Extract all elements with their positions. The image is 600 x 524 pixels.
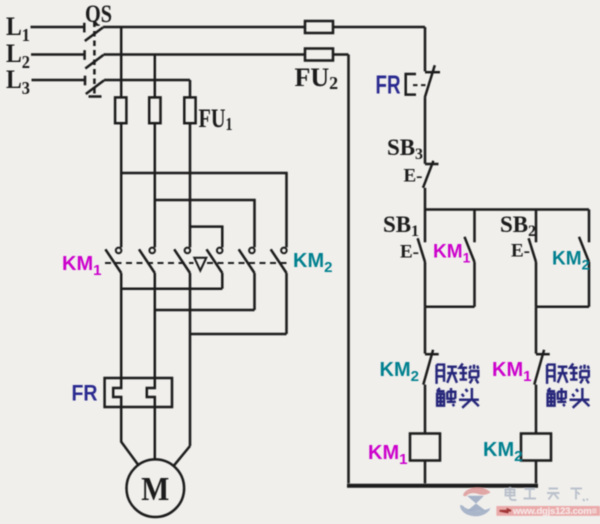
wire left rail xyxy=(347,55,350,484)
button SB1 NO blade xyxy=(418,238,425,262)
wire FU2b to left rail xyxy=(333,53,349,56)
svg-text:KM1: KM1 xyxy=(368,442,407,468)
wire KM2 aux down xyxy=(588,262,591,307)
FR box xyxy=(105,378,172,407)
watermark logo knot xyxy=(467,496,486,511)
FR NC contact tick xyxy=(425,71,440,74)
contact KM2 aux NO blade xyxy=(579,237,589,262)
svg-text:E-: E- xyxy=(511,241,530,262)
wire L3 feeder down xyxy=(189,80,192,97)
wire SB1 down xyxy=(424,262,427,307)
wire KM1 aux down xyxy=(473,262,476,307)
wire FR to SB3 xyxy=(424,98,427,164)
wire coil2 down xyxy=(535,461,538,484)
contactor KM2 pole1 terminal xyxy=(217,248,223,254)
coil KM1 xyxy=(410,434,440,461)
wire crossover top C (L3 to contact4) xyxy=(190,227,222,248)
contactor KM2 pole1 blade xyxy=(207,249,223,273)
svg-text:SB1: SB1 xyxy=(383,212,419,240)
wire crossover bottom A xyxy=(121,287,222,290)
motor circle xyxy=(127,459,185,517)
thermal relay FR element xyxy=(105,378,172,407)
FR actuator dashed link xyxy=(413,84,428,86)
watermark red banner xyxy=(496,506,600,516)
wire branch top rail xyxy=(425,208,589,211)
wire KM2 aux join xyxy=(536,306,589,309)
wire SB2 down xyxy=(535,262,538,307)
fuse FU1 pole2 xyxy=(149,97,160,123)
wire L2 out to FU2b xyxy=(104,53,306,56)
watermark logo red crescent xyxy=(463,487,491,496)
svg-text:SB2: SB2 xyxy=(500,212,536,240)
wire SB1 drop xyxy=(424,210,427,243)
watermark xyxy=(460,487,600,517)
coil KM2 xyxy=(521,434,551,461)
interlock KM1 NC blade xyxy=(534,350,544,385)
contactor KM1 pole2 blade xyxy=(139,249,155,273)
wire L2 in xyxy=(31,53,84,56)
CONTROL-SECTION xyxy=(305,21,589,486)
wire contact3 down xyxy=(189,273,192,446)
svg-text:M: M xyxy=(141,471,169,508)
watermark banner arrow xyxy=(500,509,512,512)
wire L2 feeder down xyxy=(154,55,157,98)
wire crossover top B (L2 to contact5) xyxy=(155,200,255,247)
wire L3 out xyxy=(104,79,190,82)
contactor KM2 pole2 terminal xyxy=(249,248,255,254)
wire bottom rail xyxy=(347,484,538,488)
fuse FU1 pole3 xyxy=(184,97,195,123)
svg-text:FR: FR xyxy=(72,381,98,406)
wire KM1 aux drop xyxy=(473,210,476,243)
wire KM2 aux drop xyxy=(588,210,591,243)
wire contact6 down xyxy=(285,273,288,334)
FR heater 2 xyxy=(147,378,155,407)
fuse FU2 b xyxy=(305,49,333,61)
FR heater 1 xyxy=(113,378,121,407)
contactor KM1 pole3 blade xyxy=(174,249,190,273)
node L1 xyxy=(31,27,426,97)
wire crossover bottom B xyxy=(155,309,255,312)
node L3 xyxy=(32,80,191,97)
label interlock text 1 (lian suo chu tou) xyxy=(437,364,590,408)
QS fixed terminal 1 xyxy=(83,23,86,33)
wire L1 out to FU2a xyxy=(103,26,305,29)
wire fuse3 down xyxy=(189,123,192,247)
wire fuse2 down xyxy=(154,123,157,247)
contactor KM2 pole2 blade xyxy=(239,249,255,273)
fuse FU1 xyxy=(115,97,286,247)
svg-text:QS: QS xyxy=(85,1,112,28)
QS fixed terminal 3 xyxy=(84,76,87,86)
wire FR to motor left xyxy=(121,407,138,465)
svg-text:KM1: KM1 xyxy=(433,242,471,266)
FR actuator bracket xyxy=(406,74,416,95)
svg-text:www.dgjs123.com≡: www.dgjs123.com≡ xyxy=(512,506,597,517)
wire to motor right xyxy=(174,446,190,466)
wire L1 feeder down xyxy=(120,27,123,97)
wire contact5 down xyxy=(253,273,256,310)
wire coil1 down xyxy=(424,461,427,484)
wire branch2 to interlock xyxy=(535,307,538,354)
svg-text:FR: FR xyxy=(376,70,401,100)
wire contact2 down xyxy=(154,273,157,378)
wire SB3 to branch node xyxy=(424,188,427,210)
wire KM1 aux join xyxy=(425,306,475,309)
QS blade 3 xyxy=(86,80,104,94)
QS blade 1 xyxy=(85,27,103,41)
watermark logo blue crescent xyxy=(460,505,491,516)
mechanical linkage dashed left xyxy=(105,262,194,264)
contactor KM1 pole3 terminal xyxy=(185,248,191,254)
wire contact1 down xyxy=(120,273,123,378)
wire SB2 drop xyxy=(535,210,538,243)
svg-text:FU2: FU2 xyxy=(295,63,339,93)
wire interlock2 to coil xyxy=(535,385,538,434)
fuse FU2 a xyxy=(305,21,333,33)
interlock triangle xyxy=(194,258,206,271)
mechanical linkage dashed right xyxy=(207,262,288,264)
watermark text dian gong tian xia xyxy=(506,487,588,501)
fuse FU1 pole1 xyxy=(115,97,126,123)
contact KM1 aux NO blade xyxy=(465,237,475,262)
button SB3 NC tick xyxy=(425,163,439,166)
QS linkage dashed xyxy=(93,22,96,97)
svg-text:FU1: FU1 xyxy=(199,104,233,134)
svg-text:KM2: KM2 xyxy=(293,250,332,276)
QS fixed terminal 2 xyxy=(83,50,86,60)
wire L3 in xyxy=(32,79,85,82)
svg-text:KM2: KM2 xyxy=(380,359,419,385)
wire crossover top A (L1 to contact6) xyxy=(121,173,286,247)
contactor KM2 pole3 terminal xyxy=(281,248,287,254)
wire control main down xyxy=(424,27,427,71)
interlock KM1 NC tick xyxy=(536,353,550,356)
QS linkage end tick xyxy=(89,95,102,98)
wire L1 in xyxy=(31,26,84,29)
interlock KM2 NC tick xyxy=(425,353,439,356)
motor M xyxy=(121,407,190,517)
contactor KM2 pole3 blade xyxy=(271,249,287,273)
wire FU2a to FR contact xyxy=(333,26,425,29)
button SB3 NC blade xyxy=(423,161,433,188)
contactor KM1 pole1 terminal xyxy=(116,248,122,254)
QS blade 2 xyxy=(85,55,103,69)
button SB2 NO blade xyxy=(529,238,536,262)
svg-text:KM2: KM2 xyxy=(483,439,522,465)
contactor main contacts xyxy=(105,248,288,446)
wire fuse1 down xyxy=(120,123,123,247)
FR NC contact blade xyxy=(425,65,435,97)
contactor KM1 pole2 terminal xyxy=(149,248,155,254)
svg-text:KM1: KM1 xyxy=(62,253,101,279)
svg-text:SB3: SB3 xyxy=(387,135,423,163)
svg-text:E-: E- xyxy=(400,242,419,263)
interlock KM2 NC blade xyxy=(423,350,433,385)
wire contact4 down xyxy=(221,273,224,289)
node L2 xyxy=(31,55,349,98)
wire crossover bottom C xyxy=(190,333,287,336)
svg-text:KM1: KM1 xyxy=(492,359,531,385)
contactor KM1 pole1 blade xyxy=(105,249,121,273)
wire branch1 to interlock xyxy=(424,307,427,354)
svg-text:E-: E- xyxy=(404,166,423,187)
switch QS xyxy=(84,22,104,97)
wire interlock1 to coil xyxy=(424,385,427,434)
wire FR to motor mid xyxy=(154,407,157,459)
